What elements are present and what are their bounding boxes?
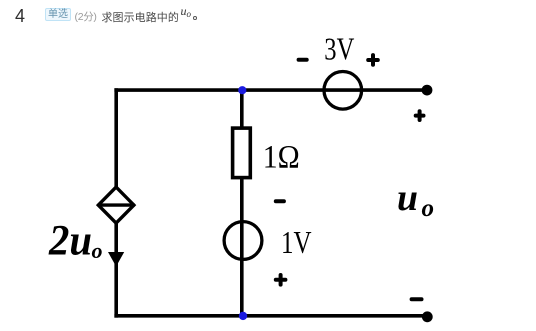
svg-text:2u: 2u	[48, 217, 92, 264]
svg-text:3V: 3V	[324, 31, 354, 67]
svg-text:1V: 1V	[281, 224, 312, 260]
svg-text:o: o	[92, 238, 103, 263]
svg-text:o: o	[422, 195, 435, 222]
svg-text:1Ω: 1Ω	[263, 139, 300, 175]
svg-text:u: u	[397, 177, 418, 219]
